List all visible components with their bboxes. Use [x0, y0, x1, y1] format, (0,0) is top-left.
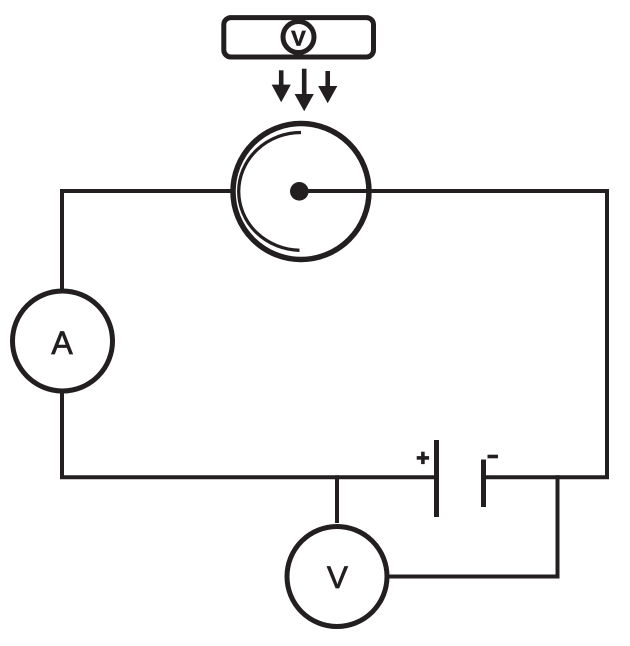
- label +: [417, 452, 429, 464]
- battery negative plate (short): [481, 460, 486, 508]
- light arrow left: [272, 70, 291, 102]
- label -: [488, 455, 499, 459]
- lamp circle with V: [283, 22, 314, 53]
- phototube (vacuum photocell): [233, 124, 369, 260]
- ammeter A: [13, 291, 113, 391]
- wire: bottom-left segment to battery + plate: [60, 475, 437, 479]
- wire: right side of loop: [605, 191, 609, 477]
- phototube cathode arc: [239, 133, 301, 251]
- svg-text:V: V: [291, 26, 306, 51]
- svg-text:A: A: [51, 325, 73, 361]
- wire: riser up to bottom wire junction: [556, 475, 560, 578]
- svg-text:V: V: [327, 559, 348, 595]
- voltmeter V: [287, 527, 387, 627]
- wire: drop from bottom wire to voltmeter: [335, 475, 339, 523]
- phototube anode dot: [290, 182, 309, 201]
- wire: voltmeter right to junction riser: [385, 575, 559, 579]
- wire: left side of loop: [60, 191, 64, 477]
- battery positive plate (long): [434, 440, 439, 517]
- light arrow middle: [295, 69, 314, 112]
- wire: top-left segment to phototube: [60, 189, 234, 193]
- wire: bottom-right segment from battery - plate: [484, 475, 610, 479]
- light arrow right: [318, 71, 337, 103]
- lamp L1 (light source box): [224, 18, 374, 57]
- wire: anode to right side: [299, 189, 609, 193]
